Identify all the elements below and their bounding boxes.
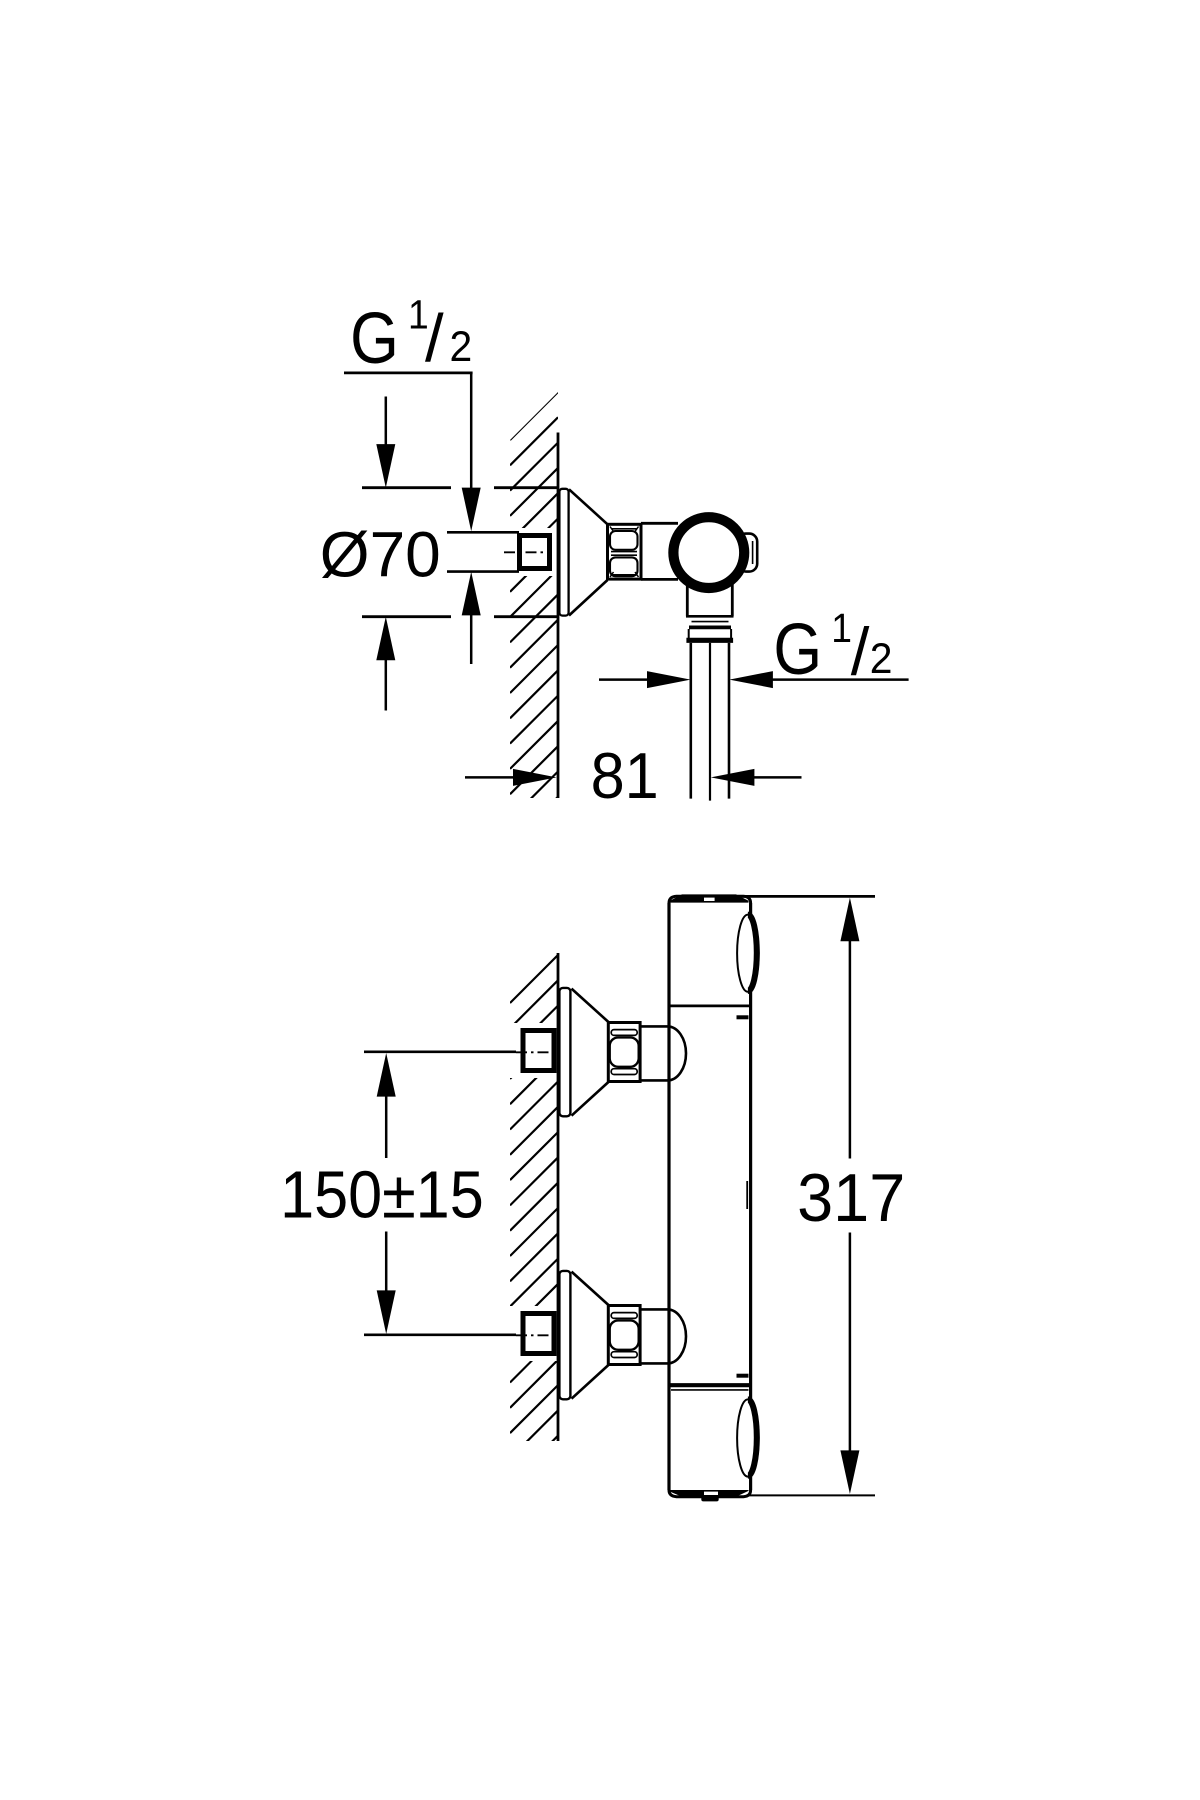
svg-text:2: 2 <box>450 322 473 370</box>
bottom tick <box>737 1374 749 1378</box>
top tick <box>737 1015 749 1019</box>
bottom grip oval <box>737 1399 759 1476</box>
lower inlet boss arc <box>668 1309 687 1363</box>
O70 dimension lines <box>362 486 451 489</box>
upper inlet boss arc <box>668 1026 687 1080</box>
wall hatching (bottom view) <box>510 955 558 1534</box>
G 1/2 leader arrow down to pipe top <box>462 488 481 532</box>
valve body section (top view) <box>641 522 678 525</box>
lower union nut <box>608 1306 640 1365</box>
317 extension lines <box>743 895 875 898</box>
lower inlet connector <box>640 1308 668 1311</box>
wall line (bottom view) <box>557 953 560 1441</box>
top cap dark band <box>669 894 749 902</box>
bottom cap separation lines <box>669 1383 751 1387</box>
upper inlet centerline dash-dot <box>516 1051 556 1053</box>
G 1/2 label (top-left) <box>350 293 472 379</box>
svg-text:2: 2 <box>870 634 893 682</box>
G 1/2 leader line (top-left) <box>344 371 473 374</box>
wall line (top view) <box>557 433 560 799</box>
wall hatching (top view) <box>510 392 558 870</box>
wall union block (top view) <box>520 536 550 569</box>
bottom foot tab <box>701 1496 718 1501</box>
top cap separation line <box>668 1005 752 1008</box>
svg-text:1: 1 <box>831 607 852 652</box>
150+-15 dimension line with arrows <box>377 1053 396 1097</box>
neck below knob (top view) <box>686 578 689 616</box>
union nut (top view) <box>608 524 642 579</box>
O70 arrow up <box>376 617 395 661</box>
lower inlet centerline dash-dot <box>516 1334 556 1336</box>
knob circle (top view) <box>673 517 744 588</box>
svg-text:317: 317 <box>797 1161 905 1236</box>
pipe centerline dash-dot (top view) <box>504 551 552 553</box>
upper inlet: wall union block <box>523 1031 554 1071</box>
svg-text:Ø70: Ø70 <box>320 518 441 590</box>
svg-text:150±15: 150±15 <box>280 1157 484 1232</box>
escutcheon cone (top view) <box>569 489 608 524</box>
317 dimension line with arrows <box>840 898 859 942</box>
upper union nut <box>608 1023 640 1082</box>
supply pipe stub (top view) <box>447 531 519 534</box>
O70 text <box>320 518 441 590</box>
svg-text:G: G <box>350 299 399 379</box>
lower escutcheon cone <box>572 1272 610 1306</box>
top grip oval <box>737 915 759 992</box>
lower inlet: wall union block <box>523 1314 554 1354</box>
upper escutcheon plate <box>559 988 570 1116</box>
O70 arrow down <box>385 397 388 445</box>
upper escutcheon cone <box>572 989 610 1023</box>
G 1/2 dimension (hose) <box>599 678 648 681</box>
upper inlet connector <box>640 1025 668 1028</box>
G 1/2 label (right) <box>773 607 892 690</box>
hose connection collar (top view) <box>686 615 734 618</box>
svg-text:G: G <box>773 610 822 690</box>
valve body (bottom view) <box>669 903 751 1490</box>
317 text <box>797 1161 905 1236</box>
svg-text:/: / <box>851 614 870 689</box>
bottom cap dark band <box>669 1490 749 1497</box>
150+-15 extension lines <box>364 1051 516 1054</box>
150+-15 text <box>280 1157 484 1232</box>
81 dimension <box>465 776 514 779</box>
pipe bottom arrow up (G 1/2) <box>462 572 481 616</box>
lower escutcheon plate <box>559 1271 570 1399</box>
shower hose outlet (top view) <box>689 643 692 799</box>
escutcheon plate (top view) <box>559 489 568 616</box>
middle highlight dash <box>746 1181 748 1209</box>
svg-text:/: / <box>425 301 444 376</box>
svg-text:81: 81 <box>591 740 659 812</box>
temperature stop tab (top view) <box>738 534 757 572</box>
